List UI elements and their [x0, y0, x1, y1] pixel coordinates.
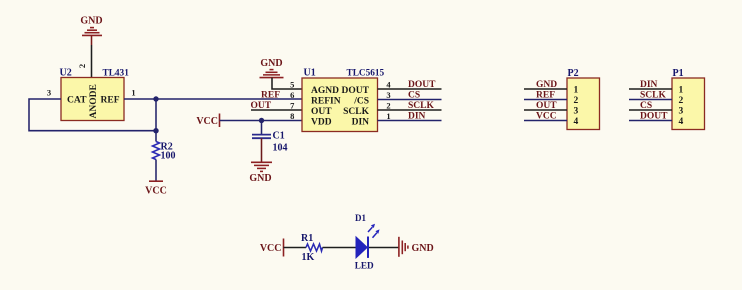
svg-text:GND: GND	[249, 173, 271, 184]
svg-text:REFIN: REFIN	[311, 97, 341, 107]
svg-text:3: 3	[47, 88, 51, 98]
svg-text:ANODE: ANODE	[89, 84, 99, 118]
svg-text:1: 1	[679, 86, 684, 96]
svg-text:VCC: VCC	[260, 243, 282, 254]
wire P2 pin 2	[524, 99, 567, 101]
wire P2 pin 1	[524, 88, 567, 90]
svg-text:CAT: CAT	[67, 94, 87, 105]
svg-text:R1: R1	[301, 233, 313, 244]
svg-text:2: 2	[77, 64, 87, 68]
svg-text:U1: U1	[304, 68, 316, 79]
svg-text:8: 8	[290, 111, 294, 121]
svg-text:AGND: AGND	[311, 86, 339, 96]
wire OUT to U1 pin 7	[251, 109, 302, 111]
svg-text:DIN: DIN	[352, 118, 370, 128]
power port VCC (U1 VDD)	[196, 114, 219, 128]
wire P2 pin 3	[524, 109, 567, 111]
wire GND to U2 pin 2	[91, 35, 93, 77]
svg-text:DIN: DIN	[408, 111, 426, 121]
junction (pin1 rail)	[153, 96, 158, 101]
svg-text:3: 3	[574, 107, 579, 117]
svg-text:VCC: VCC	[145, 186, 167, 197]
svg-text:2: 2	[679, 96, 684, 106]
svg-text:VCC: VCC	[536, 111, 557, 121]
svg-text:TL431: TL431	[103, 69, 130, 79]
wire R1 to D1	[323, 247, 357, 249]
svg-text:P2: P2	[568, 68, 579, 79]
svg-text:GND: GND	[536, 80, 557, 90]
svg-text:GND: GND	[80, 16, 102, 27]
wire U2 pin 1 to U1 REFIN pin 6	[124, 98, 302, 100]
wire C1 to GND	[261, 138, 263, 162]
svg-text:4: 4	[679, 117, 684, 127]
wire U1 pin 2 SCLK	[378, 109, 442, 111]
svg-text:VCC: VCC	[196, 116, 218, 127]
svg-text:TLC5615: TLC5615	[347, 69, 385, 79]
svg-text:SCLK: SCLK	[343, 107, 369, 117]
wire U1 pin 3 /CS	[378, 99, 442, 101]
svg-text:OUT: OUT	[311, 107, 332, 117]
power port VCC (below R2)	[145, 181, 167, 196]
svg-text:2: 2	[574, 96, 579, 106]
svg-text:3: 3	[679, 107, 684, 117]
svg-text:LED: LED	[355, 260, 374, 270]
svg-text:SCLK: SCLK	[408, 101, 434, 111]
wire P1 pin 2	[629, 99, 672, 101]
svg-text:6: 6	[290, 90, 294, 100]
wire VCC to R1	[284, 247, 307, 249]
resistor R1 1K	[301, 233, 323, 263]
svg-text:C1: C1	[273, 131, 285, 142]
svg-text:GND: GND	[412, 243, 434, 254]
wire U1 pin 4 DOUT	[378, 88, 442, 90]
wire P1 pin 3	[629, 109, 672, 111]
IC U1 TLC5615 body	[302, 68, 385, 132]
svg-text:2: 2	[386, 100, 390, 110]
svg-text:DOUT: DOUT	[408, 80, 436, 90]
svg-text:REF: REF	[101, 95, 120, 105]
wire GND to U1 pin 5	[272, 78, 302, 89]
ground GND (above U1 pin 5 AGND)	[260, 58, 284, 78]
wire U1 pin 1 DIN	[378, 120, 442, 122]
wire U2 pin 3 loop (left, down, along bottom)	[29, 99, 156, 131]
svg-text:1: 1	[574, 86, 579, 96]
svg-text:1K: 1K	[302, 252, 315, 263]
junction (C1 tap on VDD)	[259, 118, 264, 123]
LED D1	[355, 213, 380, 270]
wire vertical junction drop	[155, 99, 157, 142]
svg-text:U2: U2	[60, 68, 72, 79]
svg-text:P1: P1	[673, 68, 684, 79]
capacitor C1 104	[252, 131, 288, 154]
svg-text:1: 1	[386, 111, 390, 121]
svg-text:104: 104	[273, 143, 288, 154]
svg-text:SCLK: SCLK	[640, 90, 666, 100]
svg-text:DOUT: DOUT	[640, 111, 668, 121]
wire R2 to VCC	[155, 160, 157, 182]
svg-text:DOUT: DOUT	[342, 86, 370, 96]
wire VCC to U1 pin 8 VDD	[220, 120, 303, 122]
IC U2 TL431 body	[60, 68, 130, 121]
svg-text:5: 5	[290, 79, 294, 89]
svg-text:3: 3	[386, 90, 390, 100]
svg-text:D1: D1	[355, 213, 366, 223]
svg-text:DIN: DIN	[640, 80, 658, 90]
svg-text:1: 1	[131, 88, 135, 98]
svg-text:CS: CS	[640, 101, 652, 111]
svg-text:GND: GND	[260, 58, 282, 69]
power port VCC (LED circuit)	[260, 239, 284, 257]
ground GND (LED circuit, rotated)	[399, 237, 434, 257]
svg-text:100: 100	[161, 151, 176, 162]
svg-text:4: 4	[574, 117, 579, 127]
wire P1 pin 1	[629, 88, 672, 90]
svg-text:OUT: OUT	[536, 101, 557, 111]
svg-text:REF: REF	[536, 90, 555, 100]
ground GND (below C1)	[249, 162, 272, 184]
svg-text:7: 7	[290, 100, 295, 110]
svg-text:VDD: VDD	[311, 118, 332, 128]
connector P1 body	[672, 68, 705, 130]
ground GND (top left, above U2 pin 2)	[80, 16, 102, 36]
junction (bottom rail)	[153, 128, 158, 133]
svg-text:/CS: /CS	[353, 97, 369, 107]
svg-text:CS: CS	[408, 90, 420, 100]
wire P2 pin 4	[524, 120, 567, 122]
svg-text:REF: REF	[261, 90, 280, 100]
connector P2 body	[567, 68, 600, 130]
wire junction to C1	[261, 121, 263, 135]
wire D1 to GND	[369, 247, 399, 249]
wire P1 pin 4	[629, 120, 672, 122]
resistor R2	[153, 142, 176, 162]
